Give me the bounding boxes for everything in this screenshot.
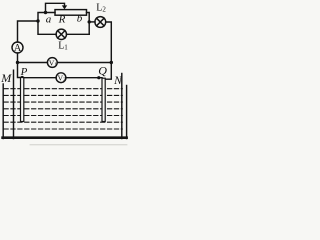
wire P to V2 bbox=[22, 77, 56, 79]
faint scan line below tank bottom bbox=[30, 144, 127, 146]
wire lamp L1 branch left bbox=[38, 21, 56, 34]
svg-text:R: R bbox=[58, 14, 66, 26]
plate P bbox=[21, 78, 24, 122]
tank right inner wall bbox=[121, 74, 123, 139]
tank bottom bbox=[3, 136, 127, 139]
svg-text:Q: Q bbox=[98, 64, 107, 78]
svg-text:N: N bbox=[113, 75, 123, 87]
wire V1 to J2 bbox=[57, 62, 111, 64]
resistor R (rheostat body) bbox=[55, 10, 87, 16]
tank right outer wall bbox=[126, 86, 128, 139]
ammeter A bbox=[12, 42, 23, 54]
wire J1 down to plate P bbox=[18, 63, 23, 78]
wire V2 to plate Q bbox=[66, 77, 102, 79]
svg-text:b: b bbox=[77, 13, 83, 25]
wire resistor right lead down bbox=[87, 13, 90, 35]
lamp L2 bbox=[95, 17, 106, 28]
node slider branch junction bbox=[44, 11, 47, 14]
node J1 below ammeter bbox=[16, 61, 19, 64]
svg-text:P: P bbox=[20, 66, 28, 78]
wire ammeter to J1 bbox=[17, 53, 19, 63]
wire rheostat lower-left lead (terminal a) bbox=[38, 13, 55, 22]
voltmeter V2 bbox=[56, 73, 66, 83]
node right parallel node bbox=[88, 20, 91, 23]
node (junction dot) left parallel node bbox=[36, 19, 39, 22]
wire lamp L1 right lead bbox=[67, 33, 90, 35]
lamp L1 bbox=[56, 29, 66, 39]
node J2 bbox=[110, 61, 113, 64]
wire J1 to V1 bbox=[18, 62, 48, 64]
wire slider top rail bbox=[46, 3, 65, 12]
tank left outer wall bbox=[2, 84, 4, 139]
wire L2 left lead bbox=[89, 21, 95, 23]
liquid dashed lines bbox=[4, 89, 122, 129]
svg-text:a: a bbox=[46, 14, 52, 26]
plate Q bbox=[102, 78, 105, 121]
wire top-left corner to left junction bbox=[18, 21, 39, 42]
svg-text:M: M bbox=[0, 71, 12, 85]
tank left inner wall bbox=[13, 70, 15, 138]
node dot on plate P top bbox=[21, 76, 24, 79]
node dot near plate Q top bbox=[97, 76, 100, 79]
slider arrow of rheostat bbox=[62, 5, 67, 9]
wire L2 right lead down to right junction bbox=[106, 22, 112, 63]
voltmeter V1 bbox=[47, 58, 57, 68]
wire J2 down to plate Q bbox=[105, 63, 111, 80]
